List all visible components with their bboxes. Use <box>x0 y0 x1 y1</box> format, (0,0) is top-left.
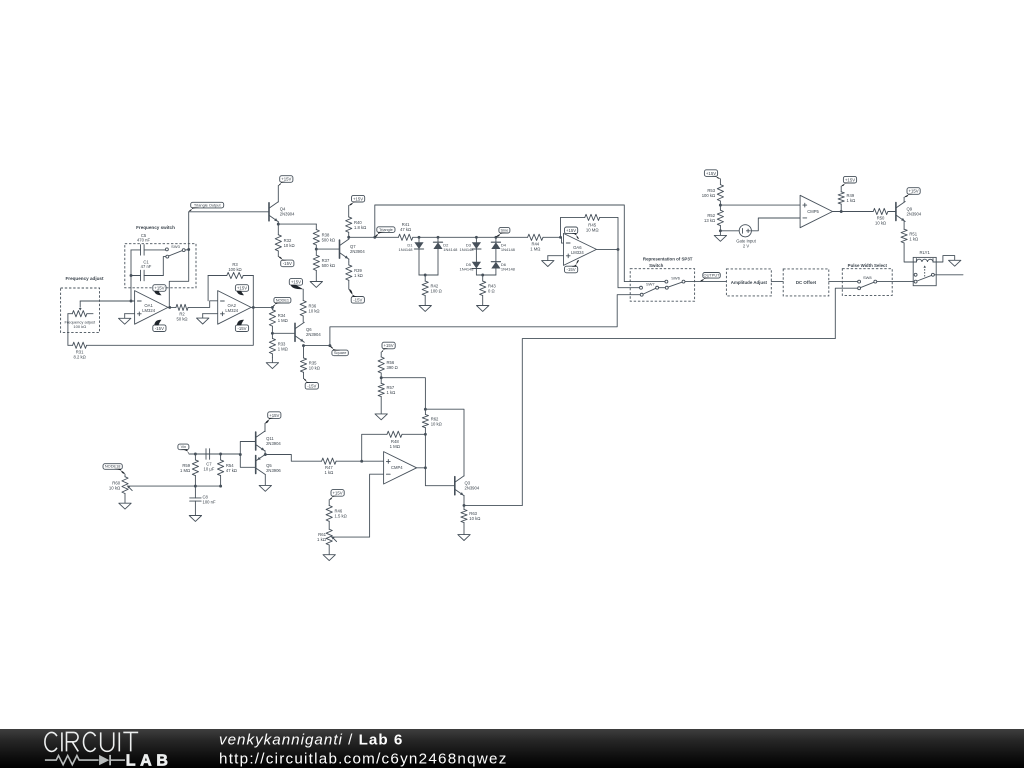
resistor R34 <box>269 307 288 333</box>
svg-text:RLY1: RLY1 <box>919 250 930 255</box>
wire triangle node to R41 <box>349 236 399 238</box>
svg-text:10 kΩ: 10 kΩ <box>875 221 886 226</box>
svg-text:Switch: Switch <box>649 263 663 268</box>
junction R44-R45 <box>559 236 562 239</box>
wire R31 to OA2 output <box>87 307 254 345</box>
wire OA1 plus to ground <box>125 313 135 315</box>
junction R56-R57 <box>380 376 383 379</box>
wire R3 left down to OA2 minus <box>207 276 209 301</box>
resistor R62 <box>422 409 441 434</box>
svg-text:2N3904: 2N3904 <box>465 486 480 491</box>
wire C5-C1 left vertical <box>130 250 132 301</box>
wire relay output <box>935 274 964 276</box>
svg-text:+15V: +15V <box>384 343 394 348</box>
diode D5 1N4148 <box>459 262 481 275</box>
wire Q5 collector to ground <box>264 475 266 486</box>
section title Pulse Width Select <box>848 263 888 268</box>
wire OA6 plus to ground <box>548 255 564 257</box>
wire Q4 collector to +15V <box>277 186 279 203</box>
wire OA6 output <box>597 248 619 250</box>
wire Vin input <box>189 453 240 455</box>
resistor R53 <box>702 179 724 205</box>
svg-text:100 kΩ: 100 kΩ <box>73 324 86 329</box>
wire CMP4 minus to R61 wiper <box>331 474 383 537</box>
svg-text:10 kΩ: 10 kΩ <box>109 486 121 491</box>
wire square node long route to SW7 <box>304 295 641 346</box>
svg-text:SW7: SW7 <box>646 282 655 287</box>
svg-text:1 MΩ: 1 MΩ <box>278 346 288 351</box>
svg-text:CMP5: CMP5 <box>807 209 819 214</box>
net label Square <box>330 346 348 356</box>
svg-text:390 Ω: 390 Ω <box>387 365 398 370</box>
svg-text:500 kΩ: 500 kΩ <box>322 238 335 243</box>
junction Q4 emitter <box>277 223 280 226</box>
switch SW8 <box>858 275 877 290</box>
svg-text:1 kΩ: 1 kΩ <box>354 273 363 278</box>
junction square label <box>328 344 331 347</box>
wire to CMP5 plus <box>720 204 800 206</box>
wire to source V2 <box>720 230 739 232</box>
diode D4 1N4148 <box>491 237 515 261</box>
junction R48-R62 <box>424 433 427 436</box>
section title Frequency adjust <box>65 276 104 281</box>
wire Q3 emitter to loop <box>464 504 522 506</box>
resistor R52 <box>704 205 723 231</box>
ground R43 <box>477 306 489 312</box>
wire pot wiper to OA1 minus input <box>80 300 131 302</box>
svg-text:+15V: +15V <box>566 228 576 233</box>
svg-text:SW8: SW8 <box>863 275 872 280</box>
svg-text:-15V: -15V <box>307 384 316 389</box>
junction R38-R37 <box>315 248 318 251</box>
wire bottom rail <box>127 485 220 487</box>
junction OA6 output <box>617 248 620 251</box>
svg-text:NODE18: NODE18 <box>105 464 121 469</box>
transistor Q11 2N3904 <box>256 431 282 451</box>
supply +15V OA6 <box>565 227 580 239</box>
svg-text:2N3904: 2N3904 <box>306 332 321 337</box>
svg-text:+15V: +15V <box>353 196 363 201</box>
dashed box Frequency adjust <box>61 288 100 332</box>
resistor R56 <box>378 352 398 377</box>
supply +15V OA1 <box>153 285 166 296</box>
svg-text:8.2 kΩ: 8.2 kΩ <box>73 354 85 359</box>
svg-text:DC Offset: DC Offset <box>796 280 817 285</box>
wire triangle-output node to Q4 base <box>189 211 269 213</box>
svg-text:Square: Square <box>334 350 347 355</box>
wire R2 to OA2 minus <box>188 301 218 308</box>
resistor R39 <box>346 262 363 289</box>
svg-text:-15V: -15V <box>567 267 576 272</box>
svg-text:+15V: +15V <box>845 177 855 182</box>
wire Q7 emitter lead <box>348 259 350 262</box>
svg-text:0 Ω: 0 Ω <box>488 289 495 294</box>
svg-text:10 µF: 10 µF <box>204 466 215 471</box>
supply +15V R49 <box>841 176 856 186</box>
wire source to CMP5 minus <box>751 218 800 231</box>
ground R57 <box>375 414 387 420</box>
junction D3 <box>475 236 478 239</box>
svg-text:2N3904: 2N3904 <box>280 212 295 217</box>
wire OA1 output <box>168 306 176 308</box>
resistor R40 <box>346 206 367 238</box>
wire R3 right down to OA2 output <box>252 276 254 308</box>
wire Q9 collector to +15V <box>903 197 905 201</box>
wire diode ladder top <box>419 236 528 238</box>
svg-text:1 MΩ: 1 MΩ <box>180 468 190 473</box>
junction bracket input <box>239 453 242 456</box>
section title Representation of SP3T <box>643 257 693 262</box>
relay RLY1 <box>913 250 936 286</box>
junction Q6 emitter square node <box>302 344 305 347</box>
svg-text:Triangle: Triangle <box>379 227 393 232</box>
svg-text:+15V: +15V <box>154 286 164 291</box>
junction OA2 output R3/R31 <box>252 306 255 309</box>
resistor R48 feedback <box>362 431 426 461</box>
junction R43 top <box>481 274 484 277</box>
wire into OA6 minus <box>561 237 564 243</box>
transistor Q4 2N3904 <box>269 202 295 222</box>
supply +15V Q9 <box>904 188 920 198</box>
supply +15V R53 <box>704 170 720 179</box>
ground R60 <box>119 494 131 510</box>
svg-text:50 kΩ: 50 kΩ <box>177 316 188 321</box>
supply +15V R40 <box>349 195 365 205</box>
resistor R43 <box>480 275 497 306</box>
op-amp OA6 <box>564 233 597 265</box>
transistor Q6 2N3904 <box>295 322 321 342</box>
dashed box DC Offset <box>783 269 829 296</box>
resistor R2 <box>176 304 188 321</box>
supply -15V OA2 <box>235 320 248 332</box>
diode D6 1N4148 <box>491 262 515 275</box>
wire CMP5 output <box>833 211 874 213</box>
svg-text:LAB: LAB <box>126 752 173 768</box>
supply -15V R35 <box>304 379 319 390</box>
junction OA1 output <box>168 306 171 309</box>
supply +15V R56 <box>381 342 395 352</box>
wire SW8 lower throw to pulse width loop <box>522 288 857 505</box>
junction R42 top <box>424 274 427 277</box>
svg-text:LM324: LM324 <box>571 250 584 255</box>
transistor Q5 2N3906 <box>256 454 282 474</box>
capacitor C8 <box>190 486 216 515</box>
resistor R3 <box>208 262 253 278</box>
junction emitters output <box>264 453 267 456</box>
svg-text:47 kΩ: 47 kΩ <box>400 227 411 232</box>
svg-text:+15V: +15V <box>269 413 279 418</box>
wire triangle top loop to SW6 <box>375 205 665 282</box>
svg-text:-15V: -15V <box>155 326 164 331</box>
junction R52 bottom <box>719 229 722 232</box>
svg-text:47 nF: 47 nF <box>141 264 152 269</box>
resistor R44 <box>528 234 561 251</box>
wire DC Offset to SW8 <box>829 281 858 283</box>
wire OA6 output down to SW7 <box>618 249 639 287</box>
svg-text:venkykanniganti / Lab 6: venkykanniganti / Lab 6 <box>219 732 403 749</box>
supply +15V OA2 <box>235 285 248 296</box>
capacitor C1 <box>131 259 163 280</box>
CircuitLab logo <box>45 732 173 768</box>
resistor R57 <box>378 378 395 414</box>
ground R52 <box>714 231 726 242</box>
transistor Q3 2N3904 <box>455 476 480 496</box>
dashed box SP3T switch <box>630 269 694 302</box>
supply -15V R32 <box>278 256 294 266</box>
resistor R31 <box>68 342 87 359</box>
ground OA2 plus <box>197 314 209 324</box>
ground R42 <box>419 306 431 312</box>
dashed box Pulse Width Select <box>842 269 892 296</box>
wire OA2 plus to ground <box>203 313 218 315</box>
svg-text:Representation of SP3T: Representation of SP3T <box>643 257 693 262</box>
svg-text:47 kΩ: 47 kΩ <box>226 468 237 473</box>
junction D1 <box>418 236 421 239</box>
svg-text:10 kΩ: 10 kΩ <box>431 421 442 426</box>
resistor R37 <box>313 249 335 281</box>
capacitor C5 <box>131 245 165 256</box>
wire into OA1 minus <box>131 300 135 302</box>
svg-text:Frequency adjust: Frequency adjust <box>65 276 104 281</box>
resistor R54 <box>218 454 237 486</box>
supply -15V OA1 <box>153 320 166 332</box>
diode D3 1N4148 <box>459 237 481 261</box>
wire R62 top to Q3 collector <box>425 409 464 476</box>
svg-text:LM324: LM324 <box>142 308 155 313</box>
svg-text:Sine: Sine <box>501 227 509 232</box>
section title Switch <box>649 263 663 268</box>
resistor R49 <box>838 186 855 211</box>
net label Sine <box>496 227 510 237</box>
wire SW7 to SW6 <box>659 287 666 289</box>
svg-text:1 MΩ: 1 MΩ <box>278 318 288 323</box>
op-amp OA2 <box>218 291 251 325</box>
svg-text:Pulse Width Select: Pulse Width Select <box>848 263 888 268</box>
svg-text:+15V: +15V <box>237 286 247 291</box>
junction NODE1 <box>271 306 274 309</box>
svg-text:2N3904: 2N3904 <box>266 441 281 446</box>
svg-text:+15V: +15V <box>291 280 301 285</box>
resistor R45 feedback <box>561 214 619 249</box>
svg-text:1 kΩ: 1 kΩ <box>324 470 333 475</box>
junction R47-R48 <box>360 460 363 463</box>
ground R37 <box>310 282 322 288</box>
svg-text:1N4148: 1N4148 <box>459 267 474 272</box>
section title Frequency switch <box>136 225 175 230</box>
svg-text:+15V: +15V <box>333 491 343 496</box>
wire Q11 collector lead <box>264 423 266 431</box>
net label Triangle Output <box>189 202 224 211</box>
wire CMP4 output <box>417 467 426 469</box>
svg-text:+15V: +15V <box>909 189 919 194</box>
diode D1 1N4148 <box>398 237 423 275</box>
wire SW8 to relay contact <box>877 281 914 283</box>
net label OUTPUT <box>700 273 720 282</box>
wire Q7 collector lead <box>348 237 350 239</box>
dashed box Frequency switch <box>125 244 196 288</box>
footer bar <box>0 729 1024 768</box>
resistor R41 <box>398 222 419 241</box>
junction R62 top <box>424 408 427 411</box>
svg-text:2N3906: 2N3906 <box>266 468 281 473</box>
svg-text:+15V: +15V <box>281 177 291 182</box>
svg-text:2N3904: 2N3904 <box>350 249 365 254</box>
diode D2 1N4148 <box>433 237 458 275</box>
wire R62 chain down to Q3 base <box>425 434 454 485</box>
svg-text:2 V: 2 V <box>743 244 749 249</box>
ground R63 <box>458 535 470 541</box>
junction CMP5 out R49 <box>840 210 843 213</box>
junction OA1 minus node <box>130 300 133 303</box>
svg-text:1 kΩ: 1 kΩ <box>909 236 918 241</box>
capacitor C7 <box>204 449 215 472</box>
svg-text:1.8 kΩ: 1.8 kΩ <box>354 225 366 230</box>
svg-text:1N4148: 1N4148 <box>501 247 516 252</box>
wire D1-D2 bottom <box>419 274 438 276</box>
switch SW7 <box>640 282 659 297</box>
svg-text:-15V: -15V <box>237 326 246 331</box>
svg-text:1N4148: 1N4148 <box>459 247 474 252</box>
wire Amplitude to DC Offset <box>771 281 783 283</box>
svg-text:10 MΩ: 10 MΩ <box>586 228 600 233</box>
wire to Q7 base <box>316 248 339 250</box>
net label NODE18 <box>103 464 125 474</box>
svg-text:100 nF: 100 nF <box>203 500 216 505</box>
resistor R50 <box>873 208 896 225</box>
svg-text:1 MΩ: 1 MΩ <box>390 444 401 449</box>
wire Q9 emitter lead <box>903 221 905 229</box>
resistor R51 <box>901 229 918 243</box>
resistor R46 <box>326 500 347 529</box>
switch SW6 <box>665 275 685 289</box>
junction SW3 common on triangle wire <box>187 248 190 251</box>
junction R53-R52 <box>719 204 722 207</box>
svg-text:1N4148: 1N4148 <box>501 267 516 272</box>
ground OA1 plus <box>119 314 131 325</box>
wire OA2 output <box>251 306 272 308</box>
svg-text:100 kΩ: 100 kΩ <box>702 193 715 198</box>
transistor Q9 2N3904 <box>896 202 922 222</box>
supply +15V Q11 <box>265 412 281 424</box>
svg-text:LM324: LM324 <box>225 308 238 313</box>
svg-text:OUTPUT: OUTPUT <box>704 273 721 278</box>
svg-text:1 kΩ: 1 kΩ <box>317 537 327 542</box>
comparator CMP4 <box>384 452 417 484</box>
dashed box Amplitude Adjust <box>726 269 771 296</box>
junction CMP4 output <box>424 466 427 469</box>
svg-text:100 kΩ: 100 kΩ <box>228 267 241 272</box>
resistor R32 <box>275 224 294 256</box>
svg-text:10 kΩ: 10 kΩ <box>284 243 295 248</box>
junction R34-R33 <box>271 332 274 335</box>
wire R56 junction to R62 <box>381 378 425 410</box>
svg-text:10 kΩ: 10 kΩ <box>309 308 320 313</box>
svg-text:500 kΩ: 500 kΩ <box>322 263 335 268</box>
wire D3-D4 bottom <box>476 274 496 276</box>
wire to CMP4 plus <box>362 460 384 462</box>
ground R61 <box>323 545 335 561</box>
ground Q5 <box>259 485 271 491</box>
ground R33 <box>266 357 278 368</box>
svg-text:NODE1: NODE1 <box>276 297 289 302</box>
resistor R38 <box>313 224 335 249</box>
junction D4 <box>494 236 497 239</box>
svg-text:SW3: SW3 <box>171 244 180 249</box>
svg-text:-15V: -15V <box>353 298 362 303</box>
svg-text:13 kΩ: 13 kΩ <box>704 218 715 223</box>
supply -15V OA6 <box>565 260 580 273</box>
resistor R63 <box>461 505 480 534</box>
svg-text:Triangle Output: Triangle Output <box>194 202 222 207</box>
svg-text:1N4148: 1N4148 <box>398 247 413 252</box>
wire buffer out to R47 <box>265 455 321 462</box>
potentiometer R61 <box>317 529 337 545</box>
wire Q4 emitter to R38 <box>278 223 316 225</box>
junction C8 top <box>194 485 197 488</box>
wire R51 to relay coil <box>904 243 913 262</box>
junction D2 <box>437 236 440 239</box>
wire base bracket <box>240 442 255 468</box>
svg-text:2N3904: 2N3904 <box>907 211 922 216</box>
voltage source Gate Input 2V <box>736 225 756 249</box>
wire Q11 emitter lead <box>264 451 266 455</box>
svg-text:Amplitude Adjust: Amplitude Adjust <box>731 280 768 285</box>
comparator CMP5 <box>800 195 832 227</box>
ground OA6 plus <box>542 256 554 267</box>
transistor Q7 2N3904 <box>340 239 366 259</box>
wire Q4 emitter lead <box>277 222 279 224</box>
ground relay <box>949 260 961 266</box>
svg-text:1 MΩ: 1 MΩ <box>530 246 540 251</box>
svg-text:470 nF: 470 nF <box>137 238 150 243</box>
switch SW3 <box>165 244 188 258</box>
potentiometer Frequency-adjust 100k <box>64 301 96 329</box>
svg-text:http://circuitlab.com/c6yn2468: http://circuitlab.com/c6yn2468nqwez <box>219 750 508 767</box>
junction R54 bottom <box>219 485 222 488</box>
footer text <box>219 732 508 768</box>
svg-text:Frequency switch: Frequency switch <box>136 225 175 230</box>
resistor R47 <box>322 458 362 475</box>
net label Triangle <box>375 227 395 237</box>
svg-text:100 Ω: 100 Ω <box>431 289 442 294</box>
svg-text:-15V: -15V <box>283 261 292 266</box>
wire SW6 to Amplitude Adjust <box>685 281 726 283</box>
net label NODE1 <box>272 297 291 306</box>
resistor R59 <box>180 454 199 486</box>
capacitor C5 label <box>137 233 150 243</box>
svg-text:10 kΩ: 10 kΩ <box>309 365 320 370</box>
junction C1 left <box>130 274 133 277</box>
svg-text:1 kΩ: 1 kΩ <box>387 390 396 395</box>
junction triangle label <box>373 236 376 239</box>
resistor R33 <box>269 333 288 357</box>
potentiometer R60 <box>109 474 132 493</box>
wire Q3 emitter lead <box>463 496 465 506</box>
svg-text:Vin: Vin <box>181 444 187 449</box>
wire pot left down to R31 <box>67 314 69 346</box>
svg-text:1 kΩ: 1 kΩ <box>847 198 856 203</box>
svg-text:CMP4: CMP4 <box>391 465 403 470</box>
op-amp OA1 <box>135 291 168 325</box>
supply +15V R46 <box>329 490 344 500</box>
resistor R36 <box>300 289 319 322</box>
svg-text:10 kΩ: 10 kΩ <box>469 516 480 521</box>
svg-text:SW6: SW6 <box>671 275 680 280</box>
ground C8 <box>189 516 201 522</box>
wire C1 to SW3 bottom contact <box>163 257 165 276</box>
junction R54 top <box>219 453 222 456</box>
supply +15V Q4 <box>278 176 293 186</box>
